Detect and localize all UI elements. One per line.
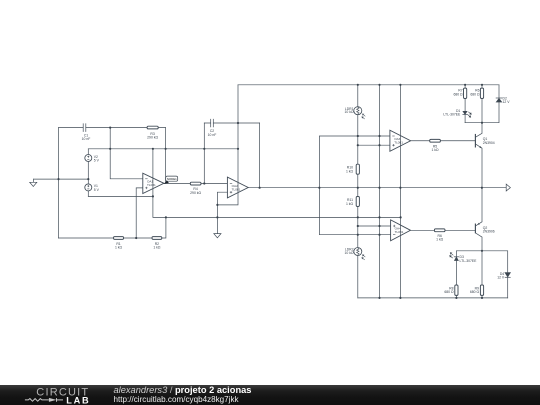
- svg-text:10 kΩ: 10 kΩ: [345, 251, 354, 255]
- svg-text:1 kΩ: 1 kΩ: [115, 245, 123, 249]
- svg-text:2N3906: 2N3906: [483, 230, 495, 234]
- svg-text:10 nF: 10 nF: [82, 137, 91, 141]
- svg-text:5 V: 5 V: [94, 188, 100, 192]
- svg-text:680 Ω: 680 Ω: [453, 92, 463, 96]
- svg-text:1 kΩ: 1 kΩ: [431, 148, 439, 152]
- svg-text:12 V: 12 V: [497, 276, 505, 280]
- svg-text:2N3904: 2N3904: [483, 141, 495, 145]
- svg-text:680 Ω: 680 Ω: [470, 290, 480, 294]
- svg-text:290 kΩ: 290 kΩ: [147, 135, 158, 139]
- svg-text:TL081: TL081: [394, 141, 403, 145]
- svg-text:TL081: TL081: [395, 230, 404, 234]
- svg-text:5 V: 5 V: [94, 158, 100, 162]
- svg-text:10 kΩ: 10 kΩ: [345, 110, 354, 114]
- svg-text:10 nF: 10 nF: [208, 133, 217, 137]
- svg-text:1 kΩ: 1 kΩ: [153, 245, 161, 249]
- svg-text:TL081: TL081: [232, 187, 241, 191]
- svg-text:680 Ω: 680 Ω: [470, 92, 480, 96]
- svg-text:LTL-307EE: LTL-307EE: [460, 259, 478, 263]
- svg-text:680 Ω: 680 Ω: [444, 290, 454, 294]
- svg-text:TL081: TL081: [147, 183, 156, 187]
- svg-text:1 kΩ: 1 kΩ: [346, 169, 354, 173]
- svg-text:290 kΩ: 290 kΩ: [190, 191, 201, 195]
- svg-text:12 V: 12 V: [503, 100, 511, 104]
- svg-text:LTL-307EE: LTL-307EE: [443, 113, 461, 117]
- svg-text:1 kΩ: 1 kΩ: [436, 238, 444, 242]
- svg-text:NODE1: NODE1: [167, 177, 177, 181]
- svg-text:LAB: LAB: [66, 395, 90, 405]
- svg-text:1 kΩ: 1 kΩ: [346, 202, 354, 206]
